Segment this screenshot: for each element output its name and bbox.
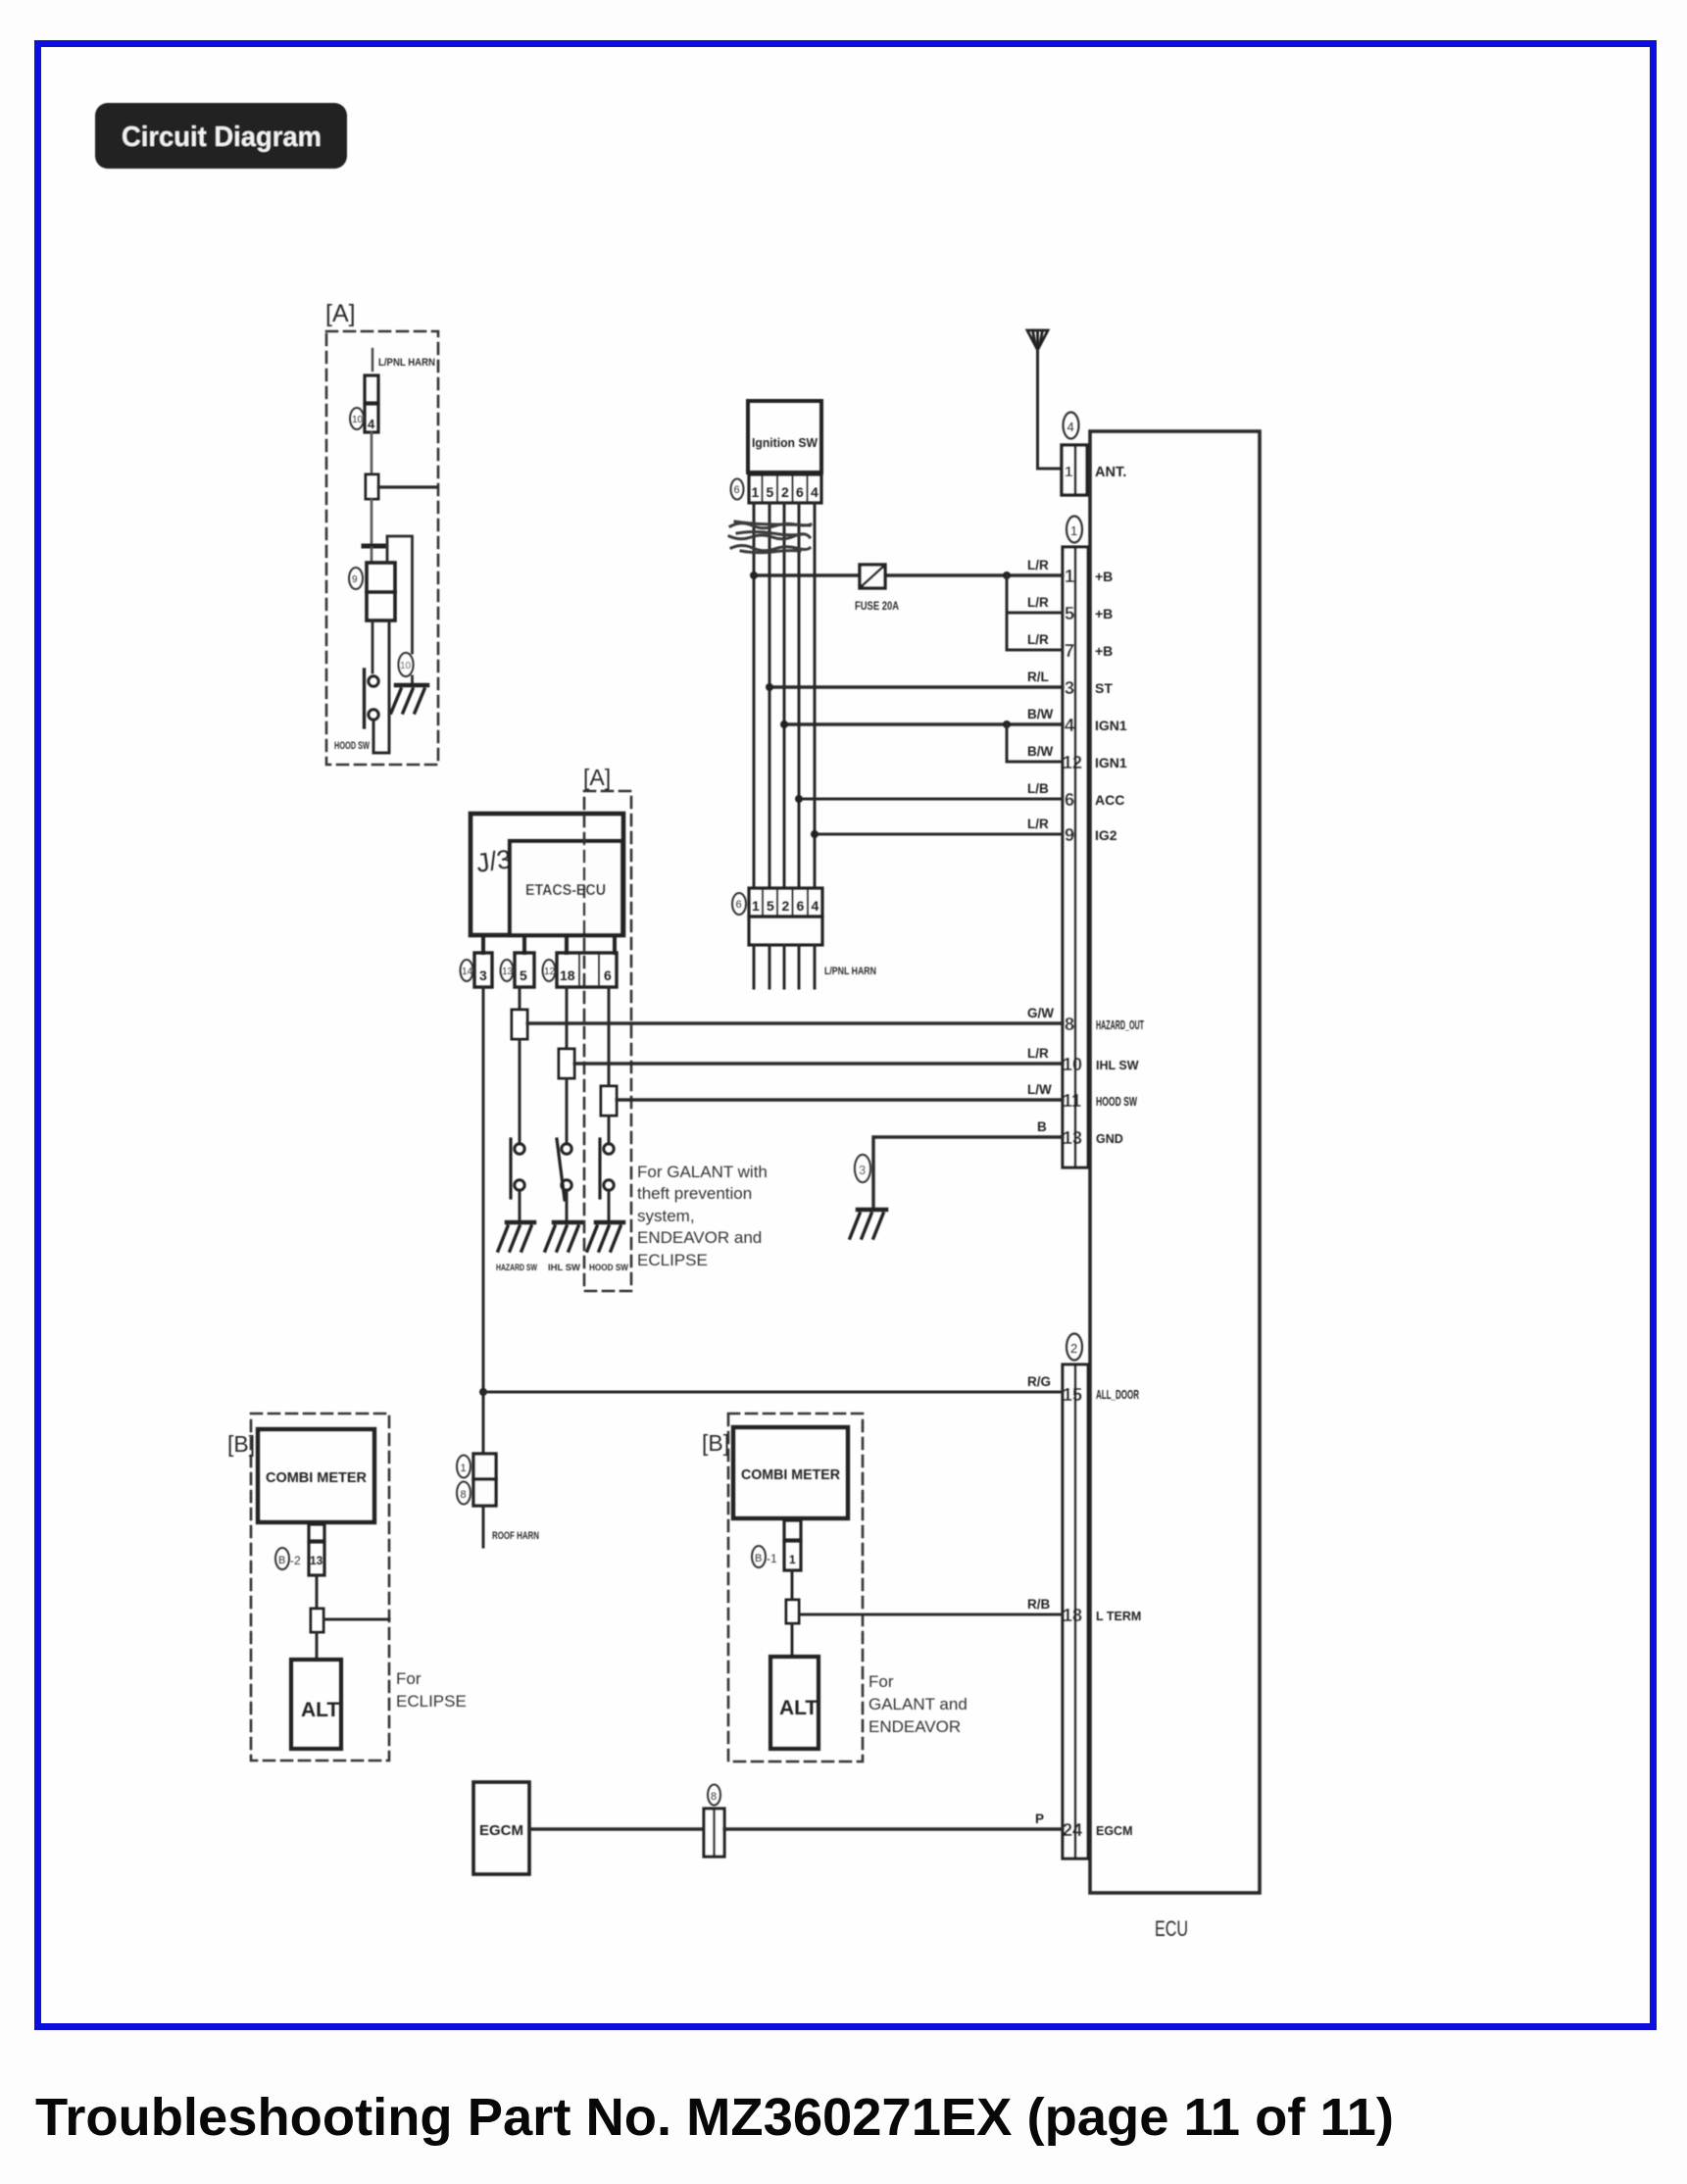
wire [372, 620, 374, 672]
svg-text:6: 6 [797, 898, 805, 914]
wire hazard column [519, 987, 521, 1012]
wire EGCM pin24 [724, 1827, 1063, 1830]
svg-text:ROOF HARN: ROOF HARN [492, 1530, 539, 1542]
hood switch (left module) [365, 670, 379, 727]
svg-text:+B: +B [1095, 606, 1113, 621]
ignition wire 1 [753, 503, 756, 888]
wire to dashed edge [323, 1618, 389, 1621]
connector C-4 ANT strip [1062, 413, 1087, 496]
svg-text:COMBI METER: COMBI METER [266, 1469, 367, 1486]
svg-text:1: 1 [1065, 567, 1074, 586]
combination meter (ECLIPSE) [258, 1429, 374, 1522]
junction connector (left module) [366, 474, 378, 499]
svg-text:[B]: [B] [702, 1430, 729, 1456]
hazard switch [511, 1139, 524, 1198]
ignition wire 5 [814, 503, 817, 888]
svg-text:B: B [1037, 1119, 1047, 1134]
dashed box [A] left (GALANT without theft prevention) [326, 331, 438, 765]
harness stub wires below lower connector [754, 945, 815, 988]
note: For GALANT with theft prevention [637, 1163, 768, 1269]
svg-text:18: 18 [560, 968, 575, 983]
svg-text:IHL SW: IHL SW [548, 1263, 580, 1273]
wire [316, 1575, 319, 1609]
svg-text:L/PNL HARN: L/PNL HARN [824, 966, 876, 977]
wire +B pin1 with fuse [754, 573, 1063, 576]
svg-text:R/G: R/G [1027, 1374, 1051, 1389]
title box Circuit Diagram [95, 103, 347, 169]
wire [791, 1623, 794, 1657]
wire [316, 1632, 319, 1660]
svg-text:ALL_DOOR: ALL_DOOR [1096, 1388, 1139, 1402]
pin numbers strip 1 [1063, 567, 1082, 1148]
wire L TERM pin18 [799, 1613, 1063, 1616]
connector ROOF HARN [457, 1454, 496, 1506]
junction dot [811, 830, 819, 838]
ignition wire 2 [769, 503, 771, 888]
alternator ALT (ECLIPSE) [291, 1660, 341, 1749]
svg-text:2: 2 [781, 484, 789, 500]
wire bottom loop [373, 620, 389, 753]
wire [371, 499, 373, 543]
svg-text:FUSE 20A: FUSE 20A [855, 601, 899, 613]
junction dot [780, 720, 788, 728]
svg-text:ALT: ALT [301, 1699, 339, 1721]
wire HOOD SW pin11 [617, 1098, 1063, 1101]
svg-text:GND: GND [1096, 1132, 1123, 1146]
svg-text:R/L: R/L [1027, 670, 1049, 684]
svg-text:3: 3 [479, 968, 487, 983]
svg-text:5: 5 [767, 484, 774, 500]
junction dot [750, 571, 758, 579]
svg-text:1: 1 [789, 1553, 796, 1566]
note: For GALANT and ENDEAVOR [868, 1672, 968, 1736]
IHL switch [557, 1139, 571, 1200]
pin numbers strip 2 [1063, 1385, 1082, 1840]
alternator ALT (GALANT/ENDEAVOR) [770, 1657, 819, 1749]
svg-text:8: 8 [711, 1791, 717, 1803]
ECU pin names [1095, 569, 1144, 1838]
svg-text:6: 6 [604, 968, 612, 983]
svg-text:12: 12 [1063, 753, 1082, 772]
junction connector hood [601, 1086, 617, 1116]
ground hood [587, 1222, 623, 1251]
harness crossing marks [729, 521, 811, 553]
svg-text:5: 5 [1065, 604, 1074, 623]
connector C-1 strip (pins 1-13) [1063, 517, 1088, 1168]
wire IHL column [566, 987, 569, 1051]
bracket pins 1-5-7 [1006, 575, 1009, 650]
svg-text:EGCM: EGCM [479, 1822, 523, 1839]
connector C-8 on EGCM wire [704, 1785, 724, 1858]
svg-text:6: 6 [796, 484, 804, 500]
ignition wire 4 [798, 503, 801, 888]
junction connector (ECLIPSE) [311, 1609, 323, 1632]
junction connector hazard [512, 1010, 527, 1039]
connector C-13 pin 5 (ETACS) [501, 953, 535, 987]
svg-text:L/R: L/R [1027, 1046, 1049, 1061]
svg-text:2: 2 [1070, 1341, 1077, 1356]
svg-text:L/R: L/R [1027, 558, 1049, 572]
svg-text:For: For [868, 1672, 894, 1691]
EGCM box [473, 1782, 529, 1874]
wire [371, 432, 373, 474]
connector B-2 pin 13 [275, 1524, 324, 1575]
wire coil top branch [387, 536, 413, 653]
svg-text:15: 15 [1063, 1385, 1082, 1405]
wire hazard column lower [519, 1039, 521, 1144]
wire stub below ROOF HARN [482, 1506, 485, 1547]
svg-text:4: 4 [1067, 420, 1074, 434]
connector C-10 pin 4 (left module) [350, 375, 378, 432]
wire +B pin5 [1007, 612, 1063, 615]
svg-text:COMBI METER: COMBI METER [741, 1466, 840, 1483]
svg-text:-1: -1 [767, 1552, 777, 1565]
svg-text:GALANT and: GALANT and [868, 1695, 968, 1713]
stub wires below J/3 [483, 935, 615, 953]
connector C-6 lower (ignition harness) [732, 888, 822, 945]
svg-text:1: 1 [752, 898, 760, 914]
wire IGN1 pin12 [1007, 761, 1063, 764]
wire [371, 548, 373, 563]
svg-text:4: 4 [1065, 716, 1074, 735]
wire antenna to ANT pin [1038, 350, 1063, 469]
svg-text:ETACS-ECU: ETACS-ECU [525, 882, 606, 899]
svg-text:HOOD SW: HOOD SW [334, 740, 370, 752]
ground IHL [545, 1222, 581, 1251]
svg-text:HOOD SW: HOOD SW [589, 1263, 628, 1273]
svg-text:10: 10 [1063, 1055, 1082, 1074]
svg-text:IGN1: IGN1 [1095, 755, 1127, 770]
svg-text:-2: -2 [290, 1554, 301, 1567]
svg-text:1: 1 [752, 484, 760, 500]
wire [608, 1190, 611, 1222]
svg-text:6: 6 [734, 484, 740, 496]
wire hood column [608, 987, 611, 1088]
junction dot [766, 683, 773, 691]
bracket pins 4-12 [1006, 724, 1009, 762]
wire IG2 pin9 [815, 833, 1063, 836]
svg-text:B: B [278, 1555, 285, 1566]
svg-text:ACC: ACC [1095, 792, 1124, 808]
junction dot [1003, 720, 1011, 728]
svg-text:B/W: B/W [1027, 707, 1054, 721]
ignition wire 3 [783, 503, 786, 888]
ETACS-ECU box [510, 841, 622, 935]
svg-text:13: 13 [1063, 1128, 1082, 1148]
ECU box [1090, 431, 1260, 1893]
svg-text:[B]: [B] [227, 1431, 255, 1457]
svg-text:7: 7 [1065, 641, 1074, 661]
svg-text:system,: system, [637, 1207, 695, 1225]
svg-text:Circuit Diagram: Circuit Diagram [122, 122, 322, 153]
svg-text:IGN1: IGN1 [1095, 718, 1127, 733]
svg-text:G/W: G/W [1027, 1006, 1054, 1020]
wire EGCM to connector [529, 1827, 704, 1830]
svg-text:[A]: [A] [583, 765, 611, 790]
wire ALL_DOOR pin15 [483, 1391, 1063, 1394]
svg-text:IHL SW: IHL SW [1096, 1059, 1139, 1072]
svg-text:For: For [396, 1669, 422, 1688]
svg-text:L/R: L/R [1027, 817, 1049, 831]
svg-text:5: 5 [767, 898, 774, 914]
svg-text:3: 3 [859, 1163, 866, 1177]
svg-text:3: 3 [1065, 678, 1074, 698]
svg-text:1: 1 [1070, 523, 1077, 538]
junction dot [1003, 571, 1011, 579]
hood switch [600, 1139, 614, 1198]
svg-text:L/R: L/R [1027, 595, 1049, 610]
wire to dashed edge [378, 485, 437, 488]
svg-text:9: 9 [1065, 825, 1074, 845]
wire [411, 676, 414, 685]
connector C-10 on ground branch [399, 653, 414, 676]
junction block J/3 [471, 814, 623, 935]
svg-text:B/W: B/W [1027, 744, 1054, 759]
svg-text:[A]: [A] [325, 300, 356, 327]
wire [566, 1190, 569, 1222]
dashed box [A] middle (hood switch for theft prevention) [584, 791, 631, 1291]
svg-text:L TERM: L TERM [1096, 1610, 1141, 1623]
svg-text:+B: +B [1095, 569, 1113, 584]
svg-text:For GALANT with: For GALANT with [637, 1163, 768, 1181]
svg-text:5: 5 [520, 968, 527, 983]
wire color labels [1027, 558, 1054, 1826]
wire GND pin13 [873, 1137, 1063, 1210]
svg-text:4: 4 [368, 417, 375, 431]
svg-text:HAZARD_OUT: HAZARD_OUT [1096, 1018, 1144, 1032]
dashed box [B] left (ECLIPSE) [251, 1414, 389, 1761]
svg-text:ENDEAVOR: ENDEAVOR [868, 1717, 961, 1736]
svg-text:24: 24 [1063, 1820, 1082, 1840]
svg-text:11: 11 [1063, 1091, 1081, 1111]
connector C-3 on ground wire [855, 1155, 870, 1182]
connector C-6 upper (ignition SW) [731, 474, 822, 503]
junction connector (GALANT) [786, 1600, 799, 1623]
fuse FUSE 20A [855, 565, 899, 613]
wire +B pin7 [1007, 649, 1063, 652]
svg-text:ECLIPSE: ECLIPSE [396, 1692, 467, 1711]
connector C-12 pins 18 and 6 (ETACS) [543, 953, 618, 987]
svg-text:L/B: L/B [1027, 781, 1049, 796]
svg-text:4: 4 [812, 898, 819, 914]
wire HAZARD_OUT pin8 [527, 1021, 1063, 1024]
svg-text:8: 8 [461, 1489, 467, 1501]
wire ACC pin6 [799, 798, 1063, 801]
svg-text:L/W: L/W [1027, 1082, 1052, 1097]
svg-text:13: 13 [502, 967, 514, 977]
svg-text:HAZARD SW: HAZARD SW [496, 1263, 537, 1273]
antenna [1027, 330, 1048, 350]
junction connector IHL [559, 1049, 574, 1078]
svg-text:ECLIPSE: ECLIPSE [637, 1251, 708, 1269]
svg-text:ST: ST [1095, 680, 1113, 696]
svg-text:IG2: IG2 [1095, 827, 1117, 843]
wire ST pin3 [769, 685, 1063, 688]
svg-text:1: 1 [1065, 464, 1072, 480]
svg-text:B: B [755, 1553, 762, 1564]
combination meter (GALANT/ENDEAVOR) [733, 1427, 848, 1518]
junction dot [479, 1388, 487, 1396]
svg-text:EGCM: EGCM [1096, 1824, 1133, 1838]
dashed box [B] right (GALANT and ENDEAVOR) [728, 1414, 863, 1762]
svg-text:+B: +B [1095, 643, 1113, 659]
wire IHL lower [566, 1078, 569, 1144]
svg-text:L/R: L/R [1027, 632, 1049, 647]
svg-text:Ignition SW: Ignition SW [752, 435, 819, 450]
svg-text:1: 1 [461, 1463, 467, 1474]
ignition switch box [748, 401, 821, 472]
svg-text:2: 2 [782, 898, 790, 914]
connector C-2 strip (pins 15-24) [1063, 1334, 1088, 1860]
wire [519, 1190, 521, 1222]
junction dot [795, 795, 803, 803]
svg-text:ENDEAVOR and: ENDEAVOR and [637, 1228, 762, 1247]
note: For ECLIPSE [396, 1669, 467, 1711]
connector C-14 pin 3 (ETACS) [461, 953, 493, 987]
svg-text:13: 13 [310, 1554, 323, 1567]
svg-text:14: 14 [462, 967, 473, 977]
svg-text:R/B: R/B [1027, 1597, 1051, 1612]
svg-text:8: 8 [1065, 1015, 1074, 1034]
svg-text:ALT: ALT [779, 1697, 818, 1719]
svg-text:12: 12 [544, 967, 556, 977]
wire ALL_DOOR column from ETACS pin3 [482, 987, 485, 1454]
svg-text:10: 10 [400, 661, 412, 671]
svg-text:ECU: ECU [1155, 1916, 1188, 1941]
svg-text:theft prevention: theft prevention [637, 1184, 752, 1203]
wire hood lower [608, 1116, 611, 1144]
connector tick [364, 544, 383, 549]
relay coil box C-9 (left module) [349, 563, 395, 620]
svg-text:ANT.: ANT. [1095, 465, 1126, 480]
svg-text:HOOD SW: HOOD SW [1096, 1095, 1137, 1109]
svg-text:L/PNL HARN: L/PNL HARN [378, 357, 435, 369]
svg-text:Troubleshooting Part No. MZ360: Troubleshooting Part No. MZ360271EX (pag… [35, 2088, 1394, 2147]
wire IHL SW pin10 [574, 1062, 1063, 1065]
svg-text:6: 6 [736, 899, 742, 911]
svg-text:P: P [1035, 1812, 1044, 1826]
ground (left module) [391, 685, 427, 713]
svg-text:18: 18 [1063, 1606, 1082, 1625]
svg-text:4: 4 [811, 484, 819, 500]
node L/PNL HARN (left module) [372, 349, 435, 371]
svg-text:10: 10 [352, 415, 364, 425]
ground hazard [498, 1222, 534, 1251]
svg-text:J/3: J/3 [474, 844, 514, 878]
svg-text:6: 6 [1065, 790, 1074, 810]
wire IGN1 pin4 [784, 722, 1063, 725]
svg-text:9: 9 [352, 574, 358, 585]
connector B-1 pin 1 [752, 1520, 801, 1570]
wire [791, 1570, 794, 1600]
ground GND (ECU) [850, 1210, 886, 1238]
